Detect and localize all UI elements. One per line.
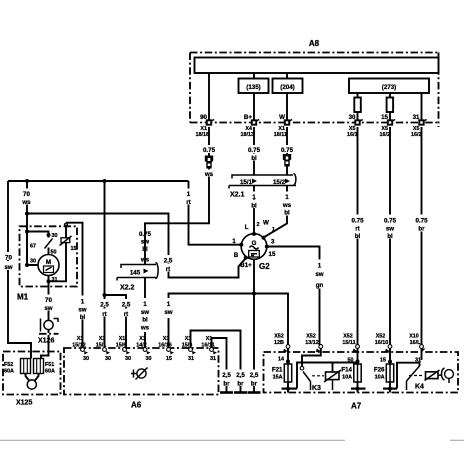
svg-text:60A: 60A — [4, 369, 14, 375]
wire 1 bl from X2.1 to G2 terminal L — [253, 186, 255, 235]
svg-text:sw: sw — [78, 307, 86, 314]
M1 solenoid 50 wire to A6 pin — [66, 223, 83, 348]
connector (204) — [273, 79, 303, 94]
svg-text:70: 70 — [5, 255, 12, 262]
svg-text:15A: 15A — [273, 375, 283, 381]
A6 connector pin X1 16/16 — [158, 336, 174, 362]
svg-text:31: 31 — [210, 356, 216, 362]
svg-text:16/L: 16/L — [410, 340, 421, 346]
svg-text:X52: X52 — [306, 334, 316, 340]
svg-text:G2: G2 — [259, 262, 270, 271]
svg-text:2.5: 2.5 — [250, 372, 259, 379]
connector (135) — [239, 79, 269, 94]
wire 0.75 ws from pin 90 to X2.2 — [145, 127, 209, 265]
wire X126 to fuse F51 — [41, 330, 49, 359]
wire 70 sw left vertical — [8, 181, 31, 359]
svg-text:F21: F21 — [272, 367, 283, 374]
page footer rule — [0, 439, 464, 441]
connector symbol X5 16/2 on A8 edge — [380, 120, 396, 139]
svg-text:13/12: 13/12 — [305, 340, 319, 346]
svg-text:18/13: 18/13 — [241, 132, 255, 138]
wire A6 31 pin to ground 2.5 br (first) — [212, 338, 227, 392]
relay K3 — [300, 348, 341, 392]
svg-text:F51: F51 — [45, 362, 54, 368]
svg-text:14: 14 — [278, 357, 284, 363]
svg-text:(273): (273) — [382, 84, 396, 91]
svg-text:14/2: 14/2 — [136, 343, 147, 349]
svg-text:15/6: 15/6 — [116, 343, 127, 349]
svg-text:0.75: 0.75 — [351, 218, 364, 225]
fuse F21 15A — [272, 348, 297, 393]
connector symbol X5 16/1 on A8 edge — [347, 120, 363, 139]
plug symbol at A7 right — [442, 368, 454, 383]
connector symbol X1 18/11 on A8 edge — [274, 120, 292, 139]
svg-text:X52: X52 — [376, 334, 386, 340]
svg-text:sw: sw — [386, 226, 394, 233]
alternator G2 — [241, 234, 267, 260]
svg-text:br: br — [237, 381, 244, 388]
F26 branch rail to K4 — [397, 363, 420, 389]
svg-text:12B: 12B — [274, 340, 284, 346]
fuse box X125 dash-dot — [3, 352, 61, 395]
wire 2.5 rt branch rail — [27, 214, 246, 278]
G2 terminal B left pin — [239, 243, 243, 247]
svg-text:M1: M1 — [17, 293, 29, 302]
A7 connector pin X52 15/11 — [342, 334, 359, 364]
svg-text:X126: X126 — [38, 338, 54, 345]
M1 terminal 31 bottom — [49, 243, 67, 287]
wire 1 sw gn from G2 terminal 15 to A7 — [267, 247, 320, 346]
svg-text:X1: X1 — [139, 336, 146, 342]
svg-text:67: 67 — [30, 244, 36, 250]
starter motor M1 dash-dot box — [20, 226, 78, 286]
connector (273) — [349, 79, 429, 94]
junction dot F14 top — [356, 360, 360, 364]
svg-text:1: 1 — [318, 263, 322, 270]
connector X126 — [38, 319, 59, 345]
wire 0.75 rt bl from X5 16/1 to A7 — [357, 127, 359, 345]
svg-text:rt: rt — [355, 226, 359, 233]
svg-text:bl: bl — [142, 246, 148, 253]
wire (273) pin 31 drop — [421, 93, 423, 123]
svg-text:X1: X1 — [99, 336, 106, 342]
svg-text:15/1: 15/1 — [240, 179, 253, 186]
wire A8 pin 90 drop — [208, 73, 210, 123]
junction on rail to 2.5 drop — [103, 179, 107, 183]
wire (273) pin 15 drop — [389, 93, 391, 123]
svg-text:L: L — [245, 224, 249, 231]
A6 connector pin X1 16/11 — [201, 336, 217, 362]
svg-text:30: 30 — [105, 356, 111, 362]
wire 0.75 bl from B+ to X2.1 15/1 — [253, 127, 255, 175]
svg-text:15/12: 15/12 — [72, 343, 86, 349]
svg-text:F52: F52 — [4, 362, 13, 368]
svg-text:sw: sw — [164, 309, 172, 316]
A7 connector pin X10 16/L — [409, 334, 425, 364]
wire 0.75 sw/bl/ws to X2.2 connector 145 — [139, 231, 152, 264]
svg-text:10A: 10A — [375, 375, 385, 381]
svg-text:10A: 10A — [342, 375, 352, 381]
svg-text:1: 1 — [143, 301, 147, 308]
svg-text:30: 30 — [30, 259, 36, 265]
svg-text:2.5: 2.5 — [100, 302, 109, 309]
svg-text:15/2: 15/2 — [273, 179, 286, 186]
svg-text:rt: rt — [166, 266, 170, 273]
svg-text:15: 15 — [269, 251, 276, 258]
M1 internal switch contact — [45, 239, 53, 249]
fuse/relay box A6 dash-dot — [64, 348, 219, 395]
svg-text:145: 145 — [130, 270, 141, 277]
F21 branch rail to K3 coil and F14 — [297, 363, 358, 389]
svg-text:ws: ws — [21, 199, 31, 206]
svg-text:31: 31 — [188, 356, 194, 362]
fuse F51 60A — [34, 359, 55, 375]
G2 terminal 15 right pin — [265, 245, 269, 249]
svg-text:2: 2 — [257, 222, 260, 228]
svg-text:B: B — [234, 252, 239, 259]
M1 internal wire from 70ws junction — [27, 232, 49, 266]
connector X2.2 (145) — [117, 263, 158, 292]
wire 0.75 ws/bl from W to X2.1 15/2 — [286, 127, 288, 175]
svg-text:15: 15 — [380, 358, 386, 364]
svg-text:2.5: 2.5 — [122, 302, 131, 309]
junction dot F21 top — [286, 360, 290, 364]
G2 terminal B1+ pin — [244, 256, 248, 260]
G2 terminal L pin — [252, 232, 256, 236]
svg-text:rt: rt — [124, 311, 128, 318]
svg-text:bl: bl — [80, 314, 86, 321]
wire A8 W drop from (204) — [286, 73, 288, 123]
A6 connector pin X1 15/6 — [116, 336, 131, 362]
svg-text:br: br — [418, 226, 425, 233]
svg-text:sw: sw — [4, 264, 12, 271]
M1 terminal 30 top label — [47, 234, 50, 237]
connector X2.1 with pins 15/1 15/2 — [229, 174, 296, 199]
svg-text:16/2: 16/2 — [380, 132, 391, 138]
G2 terminal W pin — [262, 236, 266, 240]
battery terminal circle under fuses — [26, 374, 39, 382]
svg-text:18/11: 18/11 — [274, 132, 287, 138]
svg-text:ws: ws — [140, 257, 150, 264]
junction dot F26 bottom bar — [388, 387, 392, 391]
A7 connector pin X52 12B — [274, 334, 290, 363]
relay K4 — [407, 348, 443, 391]
svg-text:0.75: 0.75 — [281, 147, 294, 154]
wire 0.75 br from X5 pin 31 to A7 — [421, 127, 423, 345]
svg-text:1: 1 — [252, 194, 256, 201]
ground symbol inside A6 — [131, 368, 148, 380]
ground terminal bar — [234, 391, 247, 394]
svg-text:K3: K3 — [312, 385, 321, 392]
svg-text:15/11: 15/11 — [342, 340, 355, 346]
wire G2 B1- ground 2.5 br — [253, 259, 255, 391]
svg-text:(204): (204) — [280, 84, 294, 91]
bus bar inside A8 — [195, 58, 439, 74]
wire 1 ws bl from X2.1 to G2 terminal W — [264, 186, 288, 238]
svg-text:X125: X125 — [16, 400, 32, 407]
svg-text:bl: bl — [251, 155, 257, 162]
svg-text:16/10: 16/10 — [375, 340, 389, 346]
svg-text:16/2: 16/2 — [411, 132, 422, 138]
svg-text:2.5: 2.5 — [222, 372, 231, 379]
junction on rail to 70 ws — [25, 179, 29, 183]
svg-text:0.75: 0.75 — [384, 218, 397, 225]
svg-text:F26: F26 — [374, 367, 385, 374]
svg-text:W: W — [263, 220, 269, 227]
svg-text:gn: gn — [316, 282, 324, 289]
svg-text:15/1: 15/1 — [96, 343, 107, 349]
svg-text:rt: rt — [102, 311, 106, 318]
svg-text:sw: sw — [141, 309, 149, 316]
svg-text:F14: F14 — [341, 367, 352, 374]
A6 connector pin X1 15/12 — [72, 336, 89, 362]
svg-text:30: 30 — [83, 356, 89, 362]
main feed horizontal wire (30 rail) — [8, 180, 189, 182]
fuse link under (273) pin 15 — [387, 98, 394, 113]
svg-text:A7: A7 — [351, 402, 362, 411]
svg-text:sw: sw — [44, 305, 52, 312]
wire A8 B+ drop from (135) — [253, 73, 255, 123]
A6 connector pin X1 15/1 — [96, 336, 111, 362]
svg-text:2.5: 2.5 — [236, 372, 245, 379]
svg-text:18/18: 18/18 — [196, 132, 210, 138]
svg-text:15: 15 — [71, 246, 77, 252]
svg-text:rt: rt — [186, 199, 190, 206]
svg-text:br: br — [251, 381, 258, 388]
value label 0.75 on ws wire — [201, 145, 217, 154]
svg-text:A8: A8 — [309, 39, 320, 48]
svg-text:16/11: 16/11 — [201, 343, 214, 349]
svg-text:30: 30 — [125, 356, 131, 362]
svg-text:1: 1 — [81, 299, 85, 306]
wire A6 31 pin to ground 2.5 br (second) — [191, 331, 241, 392]
svg-text:ws: ws — [204, 171, 214, 178]
svg-text:X52: X52 — [343, 334, 353, 340]
svg-text:X1: X1 — [119, 336, 126, 342]
svg-text:3: 3 — [271, 239, 275, 246]
svg-text:30: 30 — [52, 233, 58, 239]
junction dot F21 bottom bar — [286, 387, 290, 391]
wire 1 sw bl ws from X2.2 to A6 pin 14/2 — [144, 278, 146, 349]
svg-text:X1: X1 — [77, 336, 84, 342]
svg-text:K4: K4 — [415, 384, 424, 391]
svg-text:0.75: 0.75 — [203, 147, 216, 154]
wire 70 ws to M1 — [26, 181, 28, 265]
svg-text:M: M — [46, 259, 51, 266]
wire 1 sw from A6 15 pin up to F21 feed — [169, 294, 289, 349]
control unit A8 dash-dot box — [190, 53, 439, 128]
svg-text:bl: bl — [251, 203, 257, 210]
wire 2.5 drop to A6 pins — [105, 181, 127, 348]
splice symbol on ws/bl wire — [283, 154, 291, 167]
svg-text:(135): (135) — [246, 84, 260, 91]
svg-text:bl: bl — [387, 233, 393, 240]
connector symbol X4 18/13 on A8 edge — [241, 120, 260, 139]
fuse F26 10A — [374, 348, 397, 393]
junction dot on 15 rail at G2 ground wire — [252, 292, 256, 296]
splice symbol on ws wire — [205, 156, 213, 169]
svg-text:2.5: 2.5 — [164, 258, 173, 265]
fuse link under (273) pin 30 — [354, 98, 361, 113]
svg-text:br: br — [223, 381, 230, 388]
fuse/relay box A7 dash-dot — [264, 352, 459, 393]
svg-text:30: 30 — [146, 356, 152, 362]
wire 1 rt to G2 terminal B — [189, 181, 242, 245]
motor M symbol — [38, 255, 59, 276]
junction dot F14 bottom bar — [356, 387, 360, 391]
colour label ws — [204, 170, 215, 179]
svg-text:0.75: 0.75 — [415, 218, 428, 225]
fuse F14 10A — [341, 348, 365, 393]
junction dot F26 top — [388, 360, 392, 364]
M1 solenoid coil — [60, 236, 77, 252]
A6 connector pin X1 14/2 — [136, 336, 151, 362]
fuse F52 60A — [4, 359, 31, 375]
A6 connector pin X1 15/9 — [182, 336, 196, 362]
ground terminal bar — [220, 391, 233, 394]
svg-text:A6: A6 — [131, 401, 142, 410]
svg-text:sw: sw — [141, 239, 149, 246]
svg-text:X10: X10 — [409, 334, 419, 340]
svg-text:sw: sw — [315, 271, 323, 278]
svg-text:ws: ws — [140, 325, 150, 332]
svg-text:bl: bl — [284, 210, 290, 217]
svg-text:16/16: 16/16 — [158, 343, 172, 349]
wire (273) pin 30 drop — [357, 93, 359, 123]
svg-text:X2.2: X2.2 — [120, 285, 135, 292]
svg-text:31: 31 — [52, 277, 58, 283]
svg-text:bl: bl — [142, 317, 148, 324]
svg-text:X2.1: X2.1 — [230, 192, 245, 199]
svg-text:1: 1 — [167, 301, 171, 308]
connector symbol X5 16/3 on A8 edge — [411, 120, 427, 139]
svg-text:bl: bl — [355, 233, 361, 240]
svg-text:15: 15 — [166, 356, 172, 362]
svg-text:1: 1 — [272, 227, 275, 233]
A7 connector pin X52 16/10 — [375, 334, 392, 364]
A7 connector pin X52 13/12 — [305, 334, 322, 353]
connector symbol X1 18/18 on A8 edge — [196, 120, 215, 139]
svg-text:16/1: 16/1 — [347, 132, 358, 138]
ground terminal bar for G2 wire — [248, 391, 261, 394]
wire 70 sw from M1 terminal 31 to X126 — [48, 287, 50, 321]
wire 0.75 sw bl from X5 16/2 to A7 — [389, 127, 391, 345]
svg-text:0.75: 0.75 — [248, 147, 261, 154]
svg-text:X52: X52 — [274, 334, 284, 340]
svg-text:0.75: 0.75 — [139, 231, 152, 238]
svg-text:60A: 60A — [45, 369, 55, 375]
